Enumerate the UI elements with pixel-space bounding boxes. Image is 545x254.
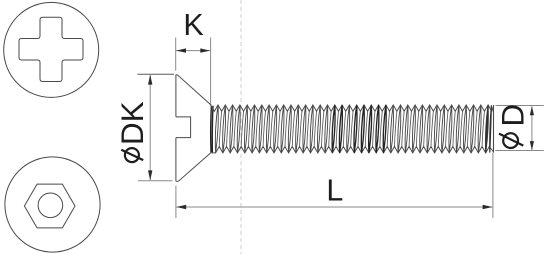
svg-text:DK: DK	[114, 101, 150, 145]
head countersink taper top	[176, 75, 211, 106]
K dimension extension line right	[210, 38, 212, 107]
DK dimension line	[149, 75, 151, 180]
centerline (vertical dashed)	[240, 0, 242, 254]
DK diameter symbol	[125, 148, 139, 162]
head countersink taper bottom	[176, 152, 211, 181]
DK arrow down	[148, 170, 152, 180]
K arrow left	[176, 48, 186, 52]
D extension line top	[495, 105, 543, 107]
hex socket hexagon	[24, 184, 75, 228]
L extension line right	[492, 153, 494, 218]
DK extension line bottom	[138, 180, 173, 182]
DK arrow up	[148, 75, 152, 85]
D dimension line	[531, 106, 533, 150]
svg-text:D: D	[495, 104, 531, 127]
L dimension line	[176, 206, 492, 208]
D arrow up	[530, 106, 534, 115]
screw head left face	[175, 75, 177, 182]
svg-text:L: L	[326, 173, 343, 207]
K dimension line	[176, 50, 210, 52]
screwdriver slot profile	[176, 117, 191, 138]
D arrow down	[530, 141, 534, 150]
threaded shank	[211, 105, 493, 111]
K arrow right	[200, 48, 210, 52]
first thread turn (dark)	[211, 106, 213, 153]
L arrow right	[483, 205, 493, 209]
head top view circle (phillips)	[4, 2, 99, 97]
L arrow left	[176, 205, 186, 209]
thread end face	[493, 105, 495, 153]
phillips cross recess	[19, 17, 83, 81]
K dimension extension line left	[175, 38, 177, 71]
last thread turns (dark)	[486, 105, 492, 153]
svg-text:K: K	[183, 8, 203, 42]
DK extension line top	[137, 73, 174, 75]
hex socket inner circle	[38, 193, 63, 218]
D extension line bottom	[495, 150, 543, 152]
head bottom view circle (hex socket)	[5, 157, 100, 252]
L extension line left	[175, 186, 177, 219]
D diameter symbol	[503, 133, 518, 148]
